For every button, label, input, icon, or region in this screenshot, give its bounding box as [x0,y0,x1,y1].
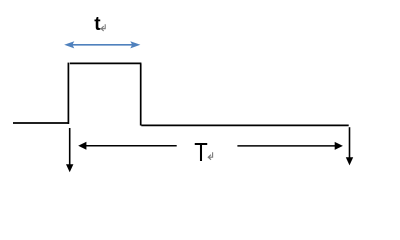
wire: left baseline segment [13,122,69,124]
period marker arrow (right, downward) [346,127,353,165]
wire: pulse rising edge [67,63,69,124]
svg-text:T: T [194,138,208,167]
wire: right baseline segment [141,124,348,126]
dimension arrow pointing left (T, left half) [78,142,177,150]
dimension arrow pointing right (T, right half) [237,142,343,150]
line-break mark after t [101,24,105,31]
period marker arrow (left, downward) [66,128,73,172]
line-break mark after T [208,152,212,159]
wire: pulse top segment [70,62,142,64]
wire: pulse falling edge [140,63,142,125]
svg-text:t: t [94,14,101,35]
dimension arrow (blue, double-headed) for t [64,41,140,48]
